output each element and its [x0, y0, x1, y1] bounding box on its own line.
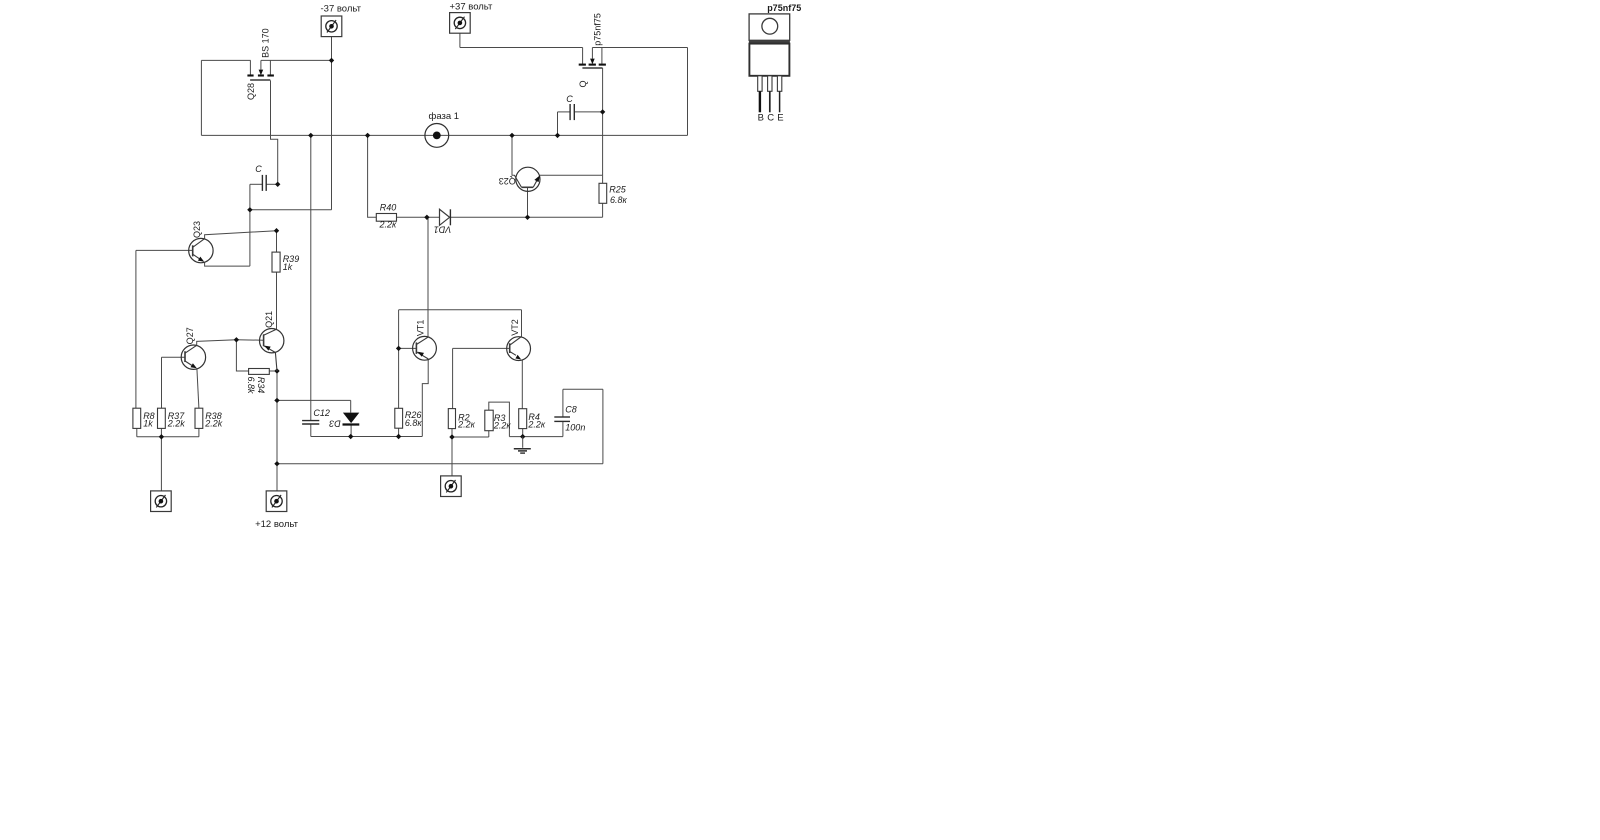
svg-text:6.8k: 6.8k	[246, 376, 256, 394]
junction R26 bottom	[396, 434, 401, 439]
wire VD1 to R25 bottom	[450, 216, 602, 218]
wire Q23 right base lead	[527, 187, 529, 217]
svg-text:E: E	[777, 112, 783, 123]
wire right loop vertical	[687, 48, 689, 136]
svg-text:2.2к: 2.2к	[457, 419, 476, 429]
svg-text:B: B	[758, 112, 764, 123]
diode D3	[343, 413, 360, 425]
wire Q21 base horizontal	[236, 339, 263, 341]
wire Q23 base horizontal	[136, 249, 193, 251]
transistor Q27	[181, 345, 205, 369]
transistor Q21	[260, 329, 284, 372]
svg-text:C8: C8	[565, 405, 577, 415]
transistor Q28 BS 170 MOSFET	[247, 60, 274, 80]
svg-text:Q23: Q23	[192, 221, 202, 238]
junction D3 bottom	[348, 434, 353, 439]
svg-text:1k: 1k	[143, 419, 153, 429]
resistor R8 1k	[133, 408, 141, 428]
terminal R2 output	[441, 476, 462, 497]
svg-text:VD1: VD1	[434, 224, 452, 234]
junction +12 column D3 line	[274, 398, 279, 403]
wire bus to Q23 right	[512, 135, 515, 175]
wire Q23 base down to R8	[135, 250, 137, 408]
wire R34 right lead	[269, 370, 277, 372]
diode VD1	[440, 209, 451, 225]
wire VT1 base	[399, 347, 417, 349]
svg-text:6.8к: 6.8к	[405, 418, 423, 428]
svg-text:BS 170: BS 170	[260, 28, 270, 58]
wire VT2 base drop to R2	[452, 348, 454, 408]
wire R2 bottom lead	[451, 429, 453, 437]
wire R39 bottom to Q21 collector	[276, 272, 278, 329]
wire R3 top link over to R4 node	[489, 402, 510, 437]
TO-220 package p75nf75	[749, 3, 801, 123]
wire R4 node to C8 bottom	[509, 436, 563, 438]
wire R25 top lead	[602, 175, 604, 183]
wire Q23 emitter run	[205, 262, 250, 266]
wire C12 bottom lead	[310, 424, 312, 437]
wire C8 right side down	[602, 389, 604, 463]
wire R2 node to terminal	[451, 437, 453, 476]
resistor R2 2.2к	[448, 409, 455, 429]
wire R4 bottom lead	[522, 429, 524, 437]
wire p75nf75 source column	[602, 68, 604, 175]
wire Q23 right collector to R25	[540, 174, 603, 176]
svg-text:R40: R40	[380, 202, 397, 212]
wire +37 вольт drop	[459, 33, 461, 47]
svg-text:6.8к: 6.8к	[610, 195, 628, 205]
junction Q23 collector R39	[274, 228, 279, 233]
svg-text:VT2: VT2	[510, 319, 520, 336]
wire R40 to VD1	[397, 216, 440, 218]
svg-text:2.2к: 2.2к	[493, 421, 512, 431]
resistor R25 6.8к	[599, 183, 607, 203]
wire -37 вольт drop	[331, 37, 333, 210]
wire cap C right left lead	[558, 111, 570, 113]
terminal +37 вольт	[450, 13, 471, 34]
junction VD1 VT1	[424, 215, 429, 220]
terminal +12 вольт	[266, 491, 287, 512]
svg-text:VT1: VT1	[415, 320, 425, 337]
wire Q27 collector link	[197, 340, 237, 346]
resistor R26 6.8к	[395, 408, 403, 428]
junction R37 terminal	[159, 434, 164, 439]
junction VT1 base R26	[396, 346, 401, 351]
svg-text:2.2к: 2.2к	[527, 419, 546, 429]
wire cap C left lead	[250, 183, 262, 185]
capacitor C (left)	[262, 175, 266, 191]
wire -37 line horizontal	[250, 209, 332, 211]
capacitor C8 100n	[554, 417, 570, 421]
resistor R4 2.2к	[519, 409, 527, 429]
wire VT2 base	[453, 347, 510, 349]
wire R38 bottom lead	[198, 428, 200, 436]
wire VT2 emitter to R4	[521, 360, 523, 409]
wire Q28 drain with jog to cap C node	[271, 80, 278, 184]
svg-text:-37 вольт: -37 вольт	[321, 4, 362, 15]
capacitor C12	[302, 421, 319, 424]
wire node to R34 left	[236, 340, 248, 371]
wire R39 top lead	[276, 231, 278, 252]
wire main bus фаза 1	[201, 134, 687, 136]
svg-text:C: C	[255, 164, 262, 174]
svg-text:R25: R25	[609, 184, 627, 194]
node фаза 1	[425, 123, 449, 147]
resistor R40 2.2к	[376, 214, 396, 222]
junction bus Q23 right	[509, 133, 514, 138]
resistor R37 2.2k	[158, 408, 166, 428]
resistor R38 2.2k	[195, 408, 203, 428]
wire cap C right lead	[266, 183, 278, 185]
svg-text:p75nf75: p75nf75	[593, 13, 603, 46]
wire D3 cathode lead	[350, 424, 352, 436]
junction Q21 emitter R34	[274, 368, 279, 373]
wire R8 R37 R38 bottom bus	[137, 436, 199, 438]
svg-text:100n: 100n	[565, 423, 585, 433]
ground	[514, 437, 531, 454]
wire bottom bus C12 D3 R26 VT1	[311, 436, 422, 438]
svg-text:+12 вольт: +12 вольт	[255, 519, 299, 530]
svg-text:C: C	[566, 94, 573, 104]
wire cap C left node riser (Q23 emitter to -37 line)	[249, 184, 251, 266]
junction Q28 drain cap C	[275, 182, 280, 187]
transistor Q23 (left)	[189, 238, 213, 262]
wire top rail right of p75nf75	[592, 47, 687, 49]
svg-text:D3: D3	[329, 418, 341, 428]
junction bus R40	[365, 133, 370, 138]
wire R2 to R3 bottom	[452, 436, 489, 438]
svg-text:Q21: Q21	[264, 311, 274, 328]
wire VD1 node down to VT1 collector	[427, 217, 429, 336]
transistor Q23 (right, inverted)	[514, 167, 540, 191]
transistor VT2	[507, 337, 531, 361]
junction cap C p75 source	[600, 109, 605, 114]
wire R3 bottom lead	[488, 431, 490, 437]
junction +12 column long wire	[274, 461, 279, 466]
wire Q21 emitter node column down to +12 terminal	[276, 371, 278, 491]
svg-text:Q27: Q27	[185, 327, 195, 344]
wire R8 bottom lead	[136, 428, 138, 436]
wire VT1 VT2 top link	[399, 309, 522, 311]
wire +12 long horizontal	[277, 463, 603, 465]
svg-text:2.2k: 2.2k	[167, 419, 186, 429]
resistor R39 1k	[272, 252, 280, 272]
wire bus to C12 long vertical	[310, 135, 312, 420]
wire +37 top rail left	[460, 47, 583, 49]
svg-text:1k: 1k	[283, 262, 293, 272]
wire bus to R40	[368, 135, 377, 217]
wire R37 bottom lead	[160, 428, 162, 436]
transistor VT1	[413, 336, 437, 360]
svg-text:Q: Q	[578, 80, 588, 87]
wire to left terminal	[160, 437, 162, 491]
svg-text:Q23: Q23	[499, 176, 516, 186]
wire R26 bottom lead	[398, 428, 400, 436]
wire Q27 base down to R37	[161, 357, 163, 408]
junction R2 bottom	[449, 434, 454, 439]
wire C8 top link right	[563, 388, 603, 390]
wire Q27 emitter to R38	[197, 368, 199, 408]
junction VD1 Q23 right base	[525, 215, 530, 220]
svg-text:p75nf75: p75nf75	[767, 3, 801, 13]
svg-text:фаза 1: фаза 1	[429, 111, 460, 122]
wire D3 anode riser	[350, 400, 352, 412]
junction bus C12	[308, 133, 313, 138]
svg-text:C: C	[767, 112, 774, 123]
junction R4 ground	[520, 434, 525, 439]
wire C8 bottom lead	[562, 422, 564, 437]
wire cap C right to bus	[557, 112, 559, 135]
terminal -37 вольт	[321, 16, 342, 37]
resistor R3 2.2к	[485, 410, 493, 431]
svg-text:+37 вольт: +37 вольт	[450, 1, 494, 12]
wire Q28 gate top-left segment	[201, 59, 250, 61]
junction -37 and Q28	[329, 58, 334, 63]
wire Q23 collector link to R39	[205, 231, 277, 239]
wire VT2 collector riser	[521, 310, 523, 337]
capacitor C (right)	[570, 104, 574, 120]
svg-text:Q28: Q28	[246, 83, 256, 100]
wire Q27 base horizontal	[162, 356, 186, 358]
wire Q28 top to -37 node	[261, 59, 332, 61]
terminal output left	[151, 491, 172, 512]
svg-text:R34: R34	[256, 377, 266, 394]
resistor R34 6.8k (rotated)	[249, 369, 270, 375]
junction Q27 collector Q21 base	[234, 337, 239, 342]
wire left loop vertical	[200, 60, 202, 135]
wire R26 column	[398, 310, 400, 409]
wire C8 top lead	[562, 389, 564, 417]
wire R25 bottom lead	[602, 203, 604, 217]
wire D3 feed horizontal	[277, 399, 351, 401]
junction -37 line Q23 emitter	[247, 207, 252, 212]
svg-text:2.2k: 2.2k	[204, 419, 223, 429]
transistor p75nf75 MOSFET	[579, 48, 606, 69]
wire VT1 emitter run with jog	[422, 359, 428, 437]
svg-text:2.2к: 2.2к	[379, 220, 398, 230]
junction bus cap C	[555, 133, 560, 138]
svg-text:C12: C12	[313, 408, 330, 418]
wire cap C right to p75 source	[575, 111, 603, 113]
